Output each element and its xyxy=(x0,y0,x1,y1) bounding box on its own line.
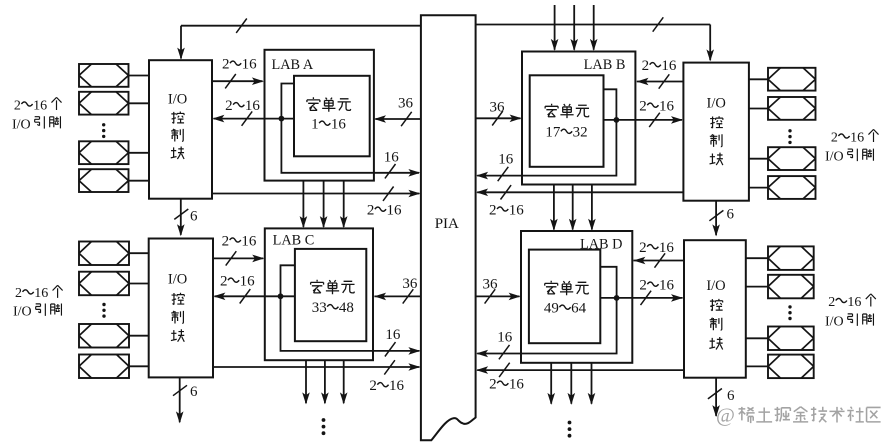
wire 6 from top-left I/O block down to bottom-left I/O block xyxy=(180,199,182,235)
wire 36 from PIA into LAB B xyxy=(476,117,521,119)
svg-text:6: 6 xyxy=(190,209,198,225)
svg-text:LAB B: LAB B xyxy=(584,57,626,73)
svg-text:16: 16 xyxy=(241,233,257,249)
svg-text:16: 16 xyxy=(389,378,405,394)
svg-text:16: 16 xyxy=(498,152,514,168)
wire 2~16 from top-right I/O block to PIA xyxy=(477,191,683,193)
svg-text:16: 16 xyxy=(387,203,403,219)
I/O pin symbols top-left group xyxy=(79,64,129,87)
LAB D macrocell text 49~64 xyxy=(545,281,558,294)
svg-text:2: 2 xyxy=(639,278,647,294)
svg-text:16: 16 xyxy=(659,99,675,115)
I/O pin symbols top-right group xyxy=(768,68,816,91)
LAB A macrocell inner box xyxy=(294,76,370,157)
svg-text:2: 2 xyxy=(642,58,650,74)
LAB B box xyxy=(522,52,635,185)
I/O control block bottom-left xyxy=(149,239,213,378)
LAB D macrocell shadow box and 16-bus wire to PIA xyxy=(477,267,616,354)
svg-text:LAB C: LAB C xyxy=(273,233,315,249)
ellipsis below LAB C arrows xyxy=(322,418,326,422)
wire feedback line from PIA to top-right I/O control block xyxy=(476,24,711,26)
svg-text:2: 2 xyxy=(14,98,21,113)
junction dot on LAB C shadow edge xyxy=(278,293,284,299)
LAB A macrocell shadow box and 16-bus wire to PIA xyxy=(281,84,419,173)
svg-text:2: 2 xyxy=(489,202,497,218)
svg-text:I/O: I/O xyxy=(706,278,725,294)
svg-text:16: 16 xyxy=(509,377,524,393)
svg-text:16: 16 xyxy=(509,202,525,218)
svg-text:2: 2 xyxy=(831,130,838,145)
svg-text:48: 48 xyxy=(339,300,354,316)
svg-text:1: 1 xyxy=(311,117,319,133)
svg-text:17: 17 xyxy=(545,125,561,141)
I/O pin symbols bottom-left group xyxy=(79,242,129,266)
ellipsis between bottom-left pins xyxy=(102,303,105,306)
wire 2~16 from LAB B macrocells to top-right I/O block xyxy=(604,119,683,121)
wire 36 from PIA into LAB D xyxy=(476,295,520,297)
svg-text:2: 2 xyxy=(222,57,230,73)
svg-text:16: 16 xyxy=(659,278,675,294)
svg-text:2: 2 xyxy=(222,233,230,249)
svg-text:2: 2 xyxy=(15,286,22,301)
svg-text:2: 2 xyxy=(639,240,647,256)
svg-text:2: 2 xyxy=(489,377,497,393)
LAB C macrocell inner box xyxy=(295,249,366,341)
svg-text:16: 16 xyxy=(661,58,677,74)
svg-text:16: 16 xyxy=(34,286,48,301)
svg-text:16: 16 xyxy=(847,295,861,310)
wire 6 from top-right I/O block down to bottom-right I/O block xyxy=(715,201,717,236)
svg-text:2: 2 xyxy=(367,203,375,219)
wire 2~16 from bottom-left I/O block into LAB C xyxy=(213,257,263,259)
svg-text:LAB A: LAB A xyxy=(272,57,314,73)
svg-text:PIA: PIA xyxy=(435,216,459,232)
svg-text:36: 36 xyxy=(402,276,418,292)
svg-text:36: 36 xyxy=(490,100,506,116)
svg-text:16: 16 xyxy=(385,327,401,343)
svg-text:16: 16 xyxy=(240,274,256,290)
svg-text:16: 16 xyxy=(497,330,513,346)
svg-text:6: 6 xyxy=(190,384,198,400)
pin connection stubs bottom-left xyxy=(129,252,149,254)
svg-text:I/O: I/O xyxy=(825,150,844,165)
I/O control block top-right xyxy=(683,63,749,201)
svg-text:16: 16 xyxy=(245,98,261,114)
svg-text:2: 2 xyxy=(369,378,377,394)
three wires LAB B down to LAB D xyxy=(553,185,555,230)
svg-text:16: 16 xyxy=(331,117,347,133)
pin connection stubs bottom-right xyxy=(746,257,768,259)
wire 2~16 from bottom-left I/O block to PIA xyxy=(213,366,419,368)
svg-text:2: 2 xyxy=(220,274,228,290)
svg-text:49: 49 xyxy=(544,301,559,317)
svg-text:@: @ xyxy=(716,405,735,427)
svg-text:36: 36 xyxy=(483,277,499,293)
svg-text:33: 33 xyxy=(312,300,327,316)
junction dot on LAB A shadow edge xyxy=(279,116,285,122)
svg-text:I/O: I/O xyxy=(168,91,187,107)
LAB B macrocell inner box xyxy=(530,75,604,167)
junction dot on LAB D shadow edge xyxy=(614,295,620,301)
svg-text:I/O: I/O xyxy=(825,315,844,330)
svg-text:16: 16 xyxy=(33,98,47,113)
svg-text:16: 16 xyxy=(850,130,864,145)
three wires LAB A down to LAB C xyxy=(302,181,304,227)
ellipsis between bottom-right pins xyxy=(788,305,791,308)
pin connection stubs top-right xyxy=(749,78,768,80)
I/O control block top-left xyxy=(149,60,212,199)
LAB B macrocell text 17~32 xyxy=(545,104,558,117)
svg-text:2: 2 xyxy=(828,295,835,310)
three wires LAB C down (continuation) xyxy=(305,360,307,403)
svg-text:16: 16 xyxy=(659,240,675,256)
PIA block (programmable interconnect array, wavy torn bottom) xyxy=(421,15,476,440)
LAB A box xyxy=(265,50,374,181)
ellipsis below LAB D arrows xyxy=(568,421,572,425)
LAB B macrocell shadow box and 16-bus wire to PIA xyxy=(477,89,616,175)
svg-text:6: 6 xyxy=(727,388,735,404)
I/O pin symbols bottom-right group xyxy=(768,246,814,270)
LAB C box xyxy=(265,228,373,360)
svg-text:I/O: I/O xyxy=(707,96,726,112)
wire 6 from bottom-left I/O block going down xyxy=(179,377,181,422)
wire 6 from bottom-right I/O block going down xyxy=(715,378,717,416)
three wires LAB D down (continuation) xyxy=(550,363,552,404)
three wires from top into LAB B xyxy=(554,5,556,50)
LAB C macrocell text 33~48 xyxy=(311,280,324,293)
svg-text:32: 32 xyxy=(573,125,588,141)
wire 2~16 from LAB C macrocells to bottom-left I/O block xyxy=(215,295,295,297)
wire 2~16 from LAB A macrocells to I/O block xyxy=(214,118,295,120)
svg-text:16: 16 xyxy=(384,150,400,166)
svg-text:16: 16 xyxy=(242,57,258,73)
wire 2~16 from bottom-right I/O block to PIA xyxy=(477,369,684,371)
wire 2~16 from I/O block into LAB A xyxy=(212,80,263,82)
wire 2~16 from I/O block to PIA (top-left) xyxy=(212,193,419,195)
pin connection stubs top-left xyxy=(129,75,150,77)
wire 36 from PIA into LAB A xyxy=(375,118,421,120)
wire 36 from PIA into LAB C xyxy=(374,295,421,297)
ellipsis between top-left pins xyxy=(102,123,105,126)
I/O control block bottom-right xyxy=(684,240,746,378)
LAB C macrocell shadow box and 16-bus wire to PIA xyxy=(281,265,420,351)
LAB A macrocell text 1~16 xyxy=(307,97,320,110)
svg-text:2: 2 xyxy=(225,98,233,114)
junction dot on LAB B shadow edge xyxy=(614,117,620,123)
wire 2~16 from LAB D macrocells to bottom-right I/O block xyxy=(600,297,682,299)
svg-text:I/O: I/O xyxy=(168,272,187,288)
svg-text:64: 64 xyxy=(571,301,587,317)
svg-text:I/O: I/O xyxy=(12,117,31,132)
wire 2~16 from bottom-right I/O block into LAB D xyxy=(633,260,684,262)
svg-text:I/O: I/O xyxy=(13,305,32,320)
svg-text:2: 2 xyxy=(639,99,647,115)
wire 2~16 from top-right I/O block into LAB B xyxy=(637,81,684,83)
ellipsis between top-right pins xyxy=(788,129,791,132)
LAB D box xyxy=(521,231,632,363)
wire feedback line from PIA to top-left I/O control block xyxy=(181,25,421,27)
LAB D macrocell inner box xyxy=(529,250,600,344)
svg-text:6: 6 xyxy=(727,206,735,222)
svg-text:36: 36 xyxy=(398,96,414,112)
